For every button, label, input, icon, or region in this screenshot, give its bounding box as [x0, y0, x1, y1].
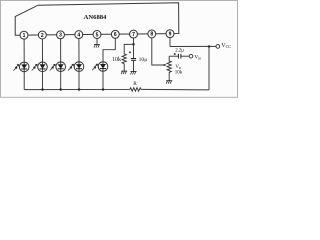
wire node to resistor 10k	[124, 44, 133, 54]
node LED3 rail junction	[59, 88, 62, 91]
terminal Vcc	[216, 42, 231, 49]
2.2u value label	[175, 48, 184, 53]
capacitor C1 10u polarity plus	[129, 51, 131, 53]
bottom rail wire left of R	[24, 88, 130, 90]
10u value label	[139, 57, 148, 63]
svg-text:10k: 10k	[175, 71, 183, 76]
capacitor C2 2.2u	[178, 54, 181, 59]
VR wiper arrowhead	[164, 64, 167, 66]
svg-text:4: 4	[77, 32, 80, 38]
wire Vcc line	[170, 45, 216, 47]
IC U1 body AN6884	[15, 3, 179, 36]
wire pin7 down to node	[133, 38, 135, 44]
wire VR top to capacitor 2.2u	[169, 55, 178, 57]
pin 4	[75, 31, 83, 39]
svg-text:9: 9	[169, 31, 172, 37]
VR label	[175, 65, 183, 76]
wire pin1 to LED1	[23, 39, 25, 62]
wire pin4 to LED4	[78, 39, 80, 62]
LED D1	[13, 62, 29, 72]
pin 8	[148, 30, 156, 38]
wire right rail Vcc to bottom	[208, 47, 210, 90]
U1 value label AN6884	[84, 14, 107, 21]
wire pin3 to LED3	[60, 39, 62, 62]
R value label	[133, 81, 137, 87]
wire pin2 to LED2	[41, 39, 43, 62]
svg-text:R: R	[133, 81, 137, 87]
node at pin7 branch	[132, 43, 135, 46]
wire pin5 to ground	[96, 38, 98, 44]
ground below potentiometer VR	[166, 81, 172, 84]
wire capacitor 10u to ground	[133, 60, 135, 71]
svg-text:5: 5	[96, 32, 99, 38]
pin 1	[20, 31, 28, 39]
terminal Vin	[189, 54, 201, 60]
node LED2 rail junction	[41, 88, 44, 91]
wire pin8 to VR wiper	[152, 38, 165, 65]
svg-text:AN6884: AN6884	[84, 14, 107, 21]
bottom rail wire right of R	[141, 88, 209, 91]
svg-text:R: R	[179, 66, 182, 70]
border frame	[1, 1, 238, 98]
pin 6	[111, 30, 119, 38]
pin 9	[166, 30, 174, 38]
svg-text:1: 1	[23, 33, 26, 39]
wire LED3 to bottom rail	[60, 72, 62, 90]
svg-text:8: 8	[150, 32, 153, 38]
wire pin6 jog to LED5	[103, 38, 115, 62]
ground below resistor 10k	[121, 71, 127, 74]
LED D5	[92, 62, 108, 72]
capacitor C2 2.2u polarity plus	[174, 53, 176, 55]
10k value label	[112, 57, 121, 63]
svg-text:CC: CC	[226, 44, 232, 49]
svg-text:10k: 10k	[112, 57, 121, 63]
svg-text:10μ: 10μ	[139, 57, 148, 63]
pin 2	[38, 31, 46, 39]
pin 7	[130, 30, 138, 38]
wire pin9 to Vcc line	[169, 38, 171, 47]
potentiometer VR 10k	[167, 56, 171, 80]
wire resistor 10k to ground	[123, 64, 125, 71]
pin 3	[57, 31, 65, 39]
wire LED4 to bottom rail	[78, 71, 80, 89]
node LED4 rail junction	[78, 88, 81, 91]
ground below capacitor 10u	[130, 72, 136, 75]
resistor R	[130, 88, 141, 92]
wire capacitor 2.2u to Vin terminal	[181, 55, 189, 57]
LED D2	[32, 62, 48, 72]
wire LED2 to bottom rail	[42, 72, 44, 90]
svg-text:in: in	[198, 56, 201, 60]
node Vcc junction	[208, 45, 211, 48]
svg-text:6: 6	[114, 32, 117, 38]
wire LED5 to bottom rail	[102, 71, 104, 89]
LED D4	[68, 62, 84, 72]
svg-text:7: 7	[132, 32, 135, 38]
svg-text:2: 2	[41, 33, 44, 39]
svg-text:3: 3	[59, 33, 62, 39]
wire LED1 to bottom rail	[23, 72, 25, 90]
capacitor C1 10u	[131, 59, 136, 61]
resistor 10k	[122, 54, 126, 64]
node LED5 rail junction	[102, 88, 105, 91]
svg-text:2.2μ: 2.2μ	[175, 48, 184, 53]
ground at pin 5	[94, 45, 100, 48]
wire node to capacitor 10u	[133, 44, 135, 58]
LED D3	[50, 62, 66, 72]
pin 5	[93, 31, 101, 39]
